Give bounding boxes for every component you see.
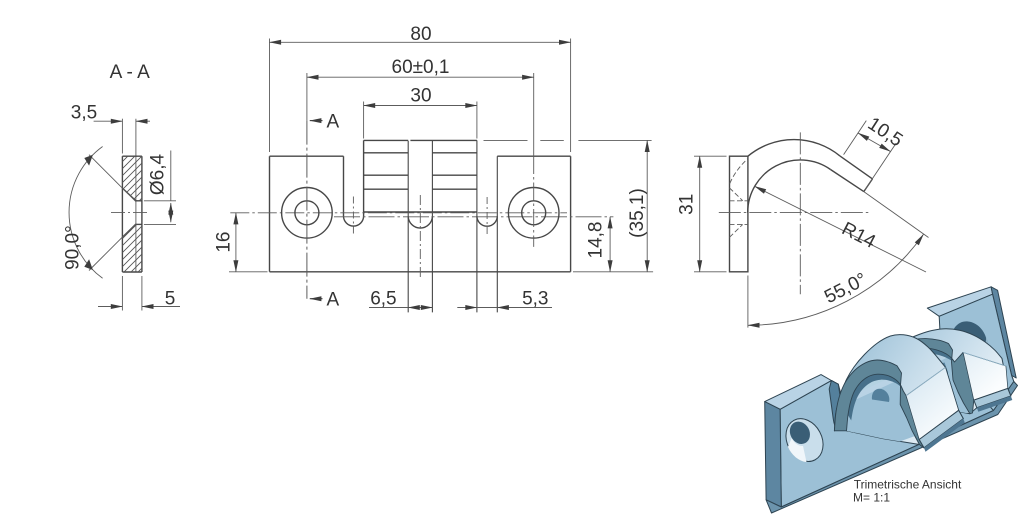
right slot bottom arc	[477, 216, 497, 226]
strap 2 descending outer quad	[963, 352, 1008, 400]
curl inner arc	[748, 160, 831, 213]
right hole inner circle	[522, 201, 546, 225]
svg-text:A - A: A - A	[110, 62, 150, 83]
strap 1 window band sliver	[843, 367, 914, 406]
left hole countersink ring	[779, 412, 831, 468]
dimension 10,5	[844, 121, 897, 190]
right block hole dark	[951, 321, 987, 356]
dimension 3,5	[94, 119, 150, 154]
notch 3 slot	[935, 331, 949, 376]
countersink cone lower edge	[122, 224, 135, 237]
dimension 30	[364, 102, 477, 139]
strap 1 front cut face	[834, 360, 924, 448]
strap 1 end under edge	[924, 419, 965, 452]
strap end face	[864, 179, 873, 192]
curl inner apex line	[364, 152, 477, 154]
right slot centerline	[486, 197, 488, 236]
strap 1 descending outer quad	[906, 367, 959, 439]
dimension 31	[694, 156, 727, 272]
strap 1 inner shadow arc	[848, 374, 906, 420]
strap 2 inner shadow arc	[881, 348, 958, 388]
strap 1 window lit far inner band	[847, 374, 911, 449]
left slot centerline	[352, 197, 354, 237]
strap 2 tangent split line	[963, 352, 1006, 366]
strap outer straight edge	[840, 156, 873, 179]
curl outer arc	[748, 140, 840, 157]
curl horizontal centerline	[719, 212, 870, 214]
section centerline	[111, 212, 150, 214]
svg-text:Trimetrische Ansicht: Trimetrische Ansicht	[854, 478, 962, 492]
svg-text:6,5: 6,5	[370, 289, 396, 310]
left hole outer circle	[282, 188, 333, 239]
left slot edges	[344, 140, 364, 216]
svg-text:5,3: 5,3	[522, 289, 548, 310]
svg-text:(35,1): (35,1)	[627, 188, 648, 238]
notch 2 round end	[872, 389, 889, 402]
svg-text:A: A	[326, 290, 339, 311]
curl apex hidden line right	[484, 139, 564, 141]
dimension diameter 6,4	[144, 151, 176, 225]
right block right side face	[991, 287, 1016, 378]
section line A-A through left hole	[306, 73, 308, 121]
notch 3 lower in window	[940, 363, 949, 377]
plate front face	[780, 294, 1014, 507]
strap 1 window plate area	[833, 373, 924, 466]
strap 1 end face	[919, 410, 963, 448]
dimension 16	[229, 213, 268, 272]
right slot edges	[477, 140, 497, 312]
svg-text:M= 1:1: M= 1:1	[853, 491, 890, 505]
curl vertical centerline	[799, 132, 801, 294]
strap 2 front cut face	[866, 339, 974, 414]
svg-text:Ø6,4: Ø6,4	[148, 153, 169, 195]
svg-text:90,0°: 90,0°	[63, 225, 84, 270]
strap 2 end under edge	[977, 396, 1013, 412]
section countersink depth line	[135, 119, 137, 272]
curl apex line	[364, 139, 477, 141]
strap end lower edge line	[364, 188, 477, 190]
right block hole cone sliver	[977, 337, 989, 357]
section plate right surface line	[141, 156, 143, 272]
fold line	[364, 211, 477, 213]
dimension 90,0 degrees	[69, 147, 136, 279]
section arrow top	[310, 120, 323, 122]
strap 2 end face	[974, 388, 1011, 407]
section plate left surface line	[121, 156, 123, 272]
svg-text:A: A	[326, 112, 339, 133]
dimension 5	[98, 276, 180, 311]
dimension 60±0,1	[307, 76, 534, 78]
hole bottom edge	[136, 223, 142, 225]
strap 2 body silhouette	[866, 329, 1011, 414]
left slot bottom arc	[344, 216, 364, 226]
plate middle top edge band	[834, 359, 951, 417]
dimension 6,5	[369, 307, 432, 309]
svg-text:5: 5	[165, 289, 176, 310]
strap 2 window band sliver	[871, 347, 958, 393]
svg-text:14,8: 14,8	[586, 222, 607, 259]
right hole outer circle	[508, 188, 559, 239]
right block face	[939, 294, 1014, 410]
svg-text:16: 16	[214, 232, 235, 253]
dimension R14 leader	[755, 186, 926, 272]
side plate outline	[730, 156, 748, 272]
strap 2 window plate area	[861, 353, 968, 453]
dimension (35,1)	[573, 140, 653, 271]
middle slot bottom arc	[408, 216, 432, 228]
svg-text:30: 30	[410, 86, 431, 107]
strap 1 body silhouette	[834, 335, 963, 448]
strap inner straight edge	[831, 170, 864, 192]
strap 2 window lit far inner band	[879, 348, 962, 413]
hidden outer curl arc in plate	[730, 159, 748, 184]
left hole cone highlight	[788, 438, 807, 462]
strap end upper edge line	[364, 174, 477, 176]
dimension 14,8	[609, 217, 611, 272]
section plate bottom edge	[122, 271, 141, 273]
left hole bore dark	[786, 418, 814, 447]
section plate top edge	[122, 155, 141, 157]
horizontal centerline	[230, 212, 567, 214]
hole top edge	[136, 200, 142, 202]
countersink cone upper edge	[122, 188, 135, 201]
section arrow bottom	[310, 298, 323, 300]
hidden hole lines	[730, 188, 748, 237]
strap 1 tangent split line	[906, 367, 945, 395]
dimension 55,0 degrees	[748, 192, 929, 328]
plate outline	[270, 156, 571, 272]
notch 1 slot	[829, 381, 844, 431]
right block top band	[927, 287, 992, 317]
left block left side face	[765, 402, 782, 507]
svg-text:60±0,1: 60±0,1	[392, 57, 450, 78]
slot-arc-centers line	[334, 216, 613, 218]
dimension 80	[270, 39, 571, 153]
dimension 5,3	[457, 307, 552, 309]
left hole inner circle	[295, 201, 319, 225]
right hole centerline vertical	[533, 73, 535, 156]
plate bottom edge strip	[766, 382, 1017, 514]
left block top band	[765, 375, 832, 410]
svg-text:31: 31	[677, 194, 698, 215]
middle slot centerline	[419, 195, 421, 279]
middle slot edges	[408, 141, 432, 313]
svg-text:3,5: 3,5	[71, 102, 97, 123]
svg-text:80: 80	[410, 24, 431, 45]
